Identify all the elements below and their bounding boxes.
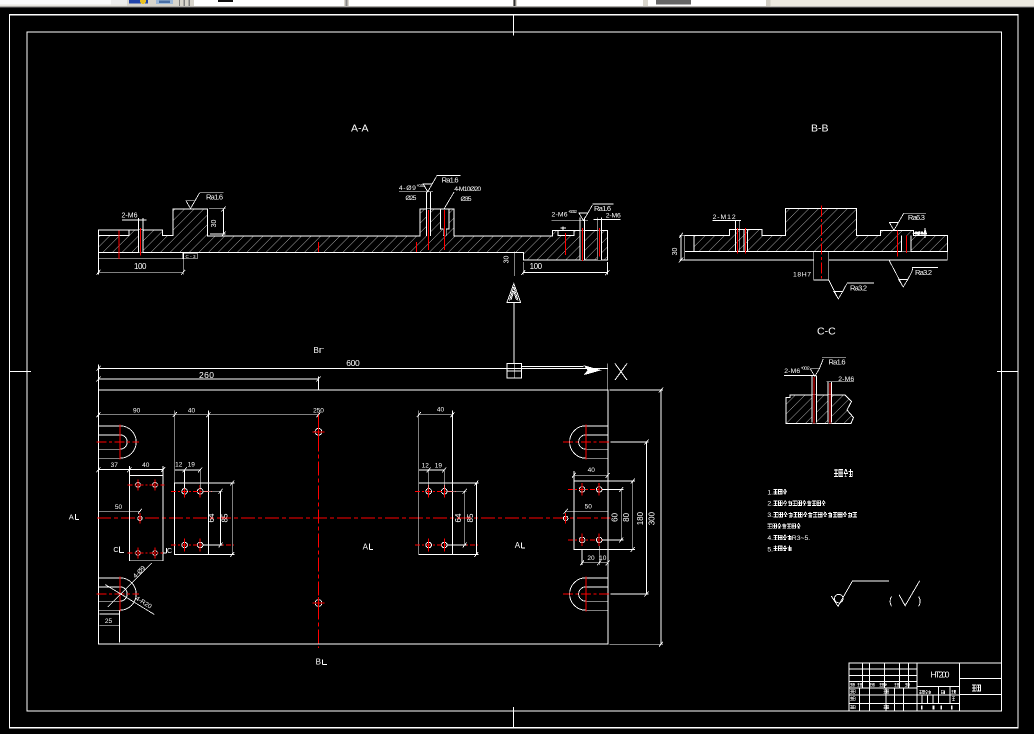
- svg-text:A-A: A-A: [351, 123, 369, 135]
- svg-text:2-M6: 2-M6: [784, 368, 800, 375]
- svg-text:37: 37: [111, 462, 119, 469]
- svg-text:20: 20: [587, 555, 595, 562]
- svg-text:HT200: HT200: [931, 670, 950, 680]
- svg-text:64: 64: [454, 513, 463, 522]
- svg-text:Ø25: Ø25: [405, 195, 416, 202]
- svg-text:80: 80: [622, 512, 631, 521]
- svg-text:Ø35: Ø35: [461, 196, 472, 203]
- svg-text:C-3: C-3: [186, 254, 196, 259]
- svg-text:18H7: 18H7: [793, 272, 811, 279]
- svg-text:40: 40: [142, 462, 150, 469]
- svg-text:10: 10: [599, 555, 607, 562]
- svg-text:4.: 4.: [767, 535, 773, 542]
- svg-text:A: A: [69, 512, 74, 521]
- svg-text:Ra1.6: Ra1.6: [442, 175, 459, 184]
- svg-text:85: 85: [466, 513, 475, 522]
- svg-text:2-M12: 2-M12: [713, 214, 736, 221]
- svg-text:Ra3.2: Ra3.2: [850, 284, 867, 293]
- svg-text:1.: 1.: [767, 489, 773, 496]
- svg-text:2.: 2.: [767, 501, 773, 508]
- svg-text:A: A: [363, 542, 369, 551]
- svg-text:3.: 3.: [767, 512, 773, 519]
- svg-text:C-C: C-C: [817, 326, 836, 338]
- svg-text:50: 50: [115, 504, 123, 511]
- svg-text:64: 64: [207, 513, 216, 522]
- svg-text:B-B: B-B: [811, 123, 829, 135]
- svg-text:600: 600: [346, 358, 360, 368]
- svg-text:12: 12: [422, 463, 430, 470]
- svg-text:25: 25: [105, 618, 113, 625]
- svg-text:100: 100: [134, 262, 147, 271]
- svg-text:Ra6.3: Ra6.3: [908, 213, 925, 222]
- svg-text:Ra1.6: Ra1.6: [206, 193, 223, 202]
- svg-text:60: 60: [611, 512, 620, 521]
- svg-text:40: 40: [188, 408, 196, 415]
- svg-text:19: 19: [188, 462, 196, 469]
- svg-text:40: 40: [437, 406, 445, 413]
- svg-text:Ra1.6: Ra1.6: [829, 358, 846, 367]
- svg-text:4-Ø9: 4-Ø9: [399, 185, 416, 192]
- svg-text:90: 90: [133, 408, 141, 415]
- svg-text:5.: 5.: [767, 546, 773, 553]
- svg-text:C: C: [113, 547, 118, 554]
- svg-text:2-M6: 2-M6: [606, 213, 621, 220]
- svg-text:R3~5.: R3~5.: [792, 535, 810, 542]
- svg-text:85: 85: [220, 513, 229, 522]
- svg-text:30: 30: [211, 220, 218, 228]
- svg-text:12: 12: [175, 462, 183, 469]
- svg-text:19: 19: [435, 463, 443, 470]
- svg-text:50: 50: [585, 504, 593, 511]
- svg-text:180: 180: [636, 511, 645, 525]
- svg-text:30: 30: [672, 248, 679, 256]
- svg-text:2-M6: 2-M6: [122, 212, 138, 219]
- svg-text:4-M10Ø20: 4-M10Ø20: [454, 186, 481, 193]
- svg-text:2-M6: 2-M6: [552, 211, 568, 218]
- svg-text:260: 260: [199, 370, 214, 380]
- svg-text:A: A: [515, 541, 521, 550]
- svg-text:+0.012: +0.012: [568, 209, 578, 214]
- svg-text:300: 300: [648, 511, 657, 525]
- svg-text:B: B: [316, 657, 321, 666]
- svg-text:C: C: [167, 548, 172, 555]
- svg-text:B: B: [314, 346, 319, 355]
- svg-text:+0.012: +0.012: [801, 365, 811, 370]
- svg-text:100: 100: [530, 262, 543, 271]
- svg-text:30: 30: [504, 256, 511, 264]
- svg-text:250: 250: [313, 408, 324, 415]
- svg-text:40: 40: [588, 467, 596, 474]
- svg-text:Ra3.2: Ra3.2: [915, 268, 932, 277]
